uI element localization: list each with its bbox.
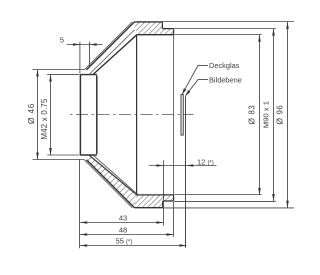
image plane line xyxy=(185,96,187,248)
leader Deckglas xyxy=(182,65,208,94)
cone outer thin bottom xyxy=(84,160,132,208)
M90 tube top edge xyxy=(162,28,173,30)
leader Bildebene xyxy=(186,80,209,96)
dimension 43 xyxy=(80,222,163,224)
step top xyxy=(161,22,163,29)
cone inner thin top xyxy=(89,30,135,75)
cone outer thick bottom xyxy=(87,160,135,208)
dimension M90 x 1 xyxy=(174,29,276,202)
svg-text:43: 43 xyxy=(119,214,127,223)
thread end line xyxy=(173,29,175,35)
tube bore end circle xyxy=(96,75,98,154)
dimension diameter 96 xyxy=(162,22,294,208)
centerline xyxy=(70,114,194,116)
M90 tube bottom edge xyxy=(163,200,174,202)
svg-text:Ø 96: Ø 96 xyxy=(275,105,285,125)
tube top edge xyxy=(80,74,97,76)
extension line left bottom xyxy=(79,159,81,248)
cone outer thick top xyxy=(87,22,135,70)
svg-text:Ø 83: Ø 83 xyxy=(246,105,256,125)
bore top edge xyxy=(137,34,174,36)
dimension diameter 46 xyxy=(33,70,85,160)
step bottom xyxy=(162,201,164,208)
cylinder bottom edge xyxy=(134,207,162,209)
tube left face xyxy=(79,75,81,155)
dimension 48 xyxy=(80,234,173,236)
svg-text:M42 x 0.75: M42 x 0.75 xyxy=(40,98,49,139)
bore bottom edge xyxy=(137,194,174,196)
extension line step bottom xyxy=(163,160,165,225)
hatch region top cylinder wall xyxy=(134,22,173,35)
svg-text:Bildebene: Bildebene xyxy=(209,75,242,84)
svg-text:5: 5 xyxy=(60,36,64,45)
svg-text:48: 48 xyxy=(119,226,127,235)
svg-text:Deckglas: Deckglas xyxy=(209,61,240,70)
dimension 12 xyxy=(149,165,217,167)
tube bottom edge xyxy=(80,154,97,156)
hatch region bottom cylinder wall xyxy=(134,195,173,208)
cone inner thin bottom xyxy=(89,155,137,195)
dimension M42 x 0.75 xyxy=(47,75,79,155)
cover glass xyxy=(181,95,183,136)
svg-text:Ø 46: Ø 46 xyxy=(26,103,36,124)
bore end circle xyxy=(136,35,138,195)
cone outer thin top xyxy=(84,22,132,70)
hatch region bottom cone wall xyxy=(87,155,137,207)
extension line thread end bottom xyxy=(173,202,175,237)
svg-text:M90 x 1: M90 x 1 xyxy=(261,101,270,128)
dimension 55 xyxy=(80,245,186,247)
cone inner thick bottom xyxy=(93,155,138,194)
cone inner thick top xyxy=(93,35,137,75)
cylinder top edge xyxy=(134,21,162,23)
dimension 5 xyxy=(67,42,103,74)
dimension diameter 83 xyxy=(174,35,262,195)
